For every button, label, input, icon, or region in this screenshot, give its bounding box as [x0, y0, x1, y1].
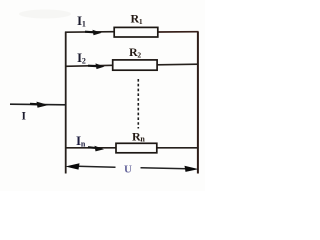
U dimension arrow right: [185, 166, 199, 172]
arrow I (input): [30, 102, 49, 108]
wire: input lead: [10, 103, 66, 106]
arrow I2: [88, 63, 105, 69]
arrow In: [88, 146, 104, 152]
resistor Rn: [116, 143, 157, 153]
svg-text:I: I: [22, 111, 27, 123]
wire: branch2 right segment: [157, 63, 198, 66]
svg-text:U: U: [124, 164, 132, 176]
arrow I1: [85, 30, 102, 36]
U dimension line left part: [78, 165, 116, 168]
wire: branch n right segment: [157, 147, 199, 149]
wire: left vertical bus: [65, 32, 67, 174]
wire: branch2 left segment: [65, 65, 113, 66]
wire: top branch left segment: [65, 31, 115, 34]
U dimension line right part: [141, 167, 187, 170]
U dimension arrow left: [65, 163, 79, 169]
faint scan smudge top-left: [19, 10, 71, 19]
wire: branch n left segment: [65, 147, 116, 149]
dashed continuation line: [137, 79, 139, 129]
resistor R2: [113, 60, 157, 70]
wire: right vertical bus: [197, 32, 199, 174]
wire: top branch right segment: [158, 31, 199, 33]
resistor R1: [114, 27, 158, 37]
